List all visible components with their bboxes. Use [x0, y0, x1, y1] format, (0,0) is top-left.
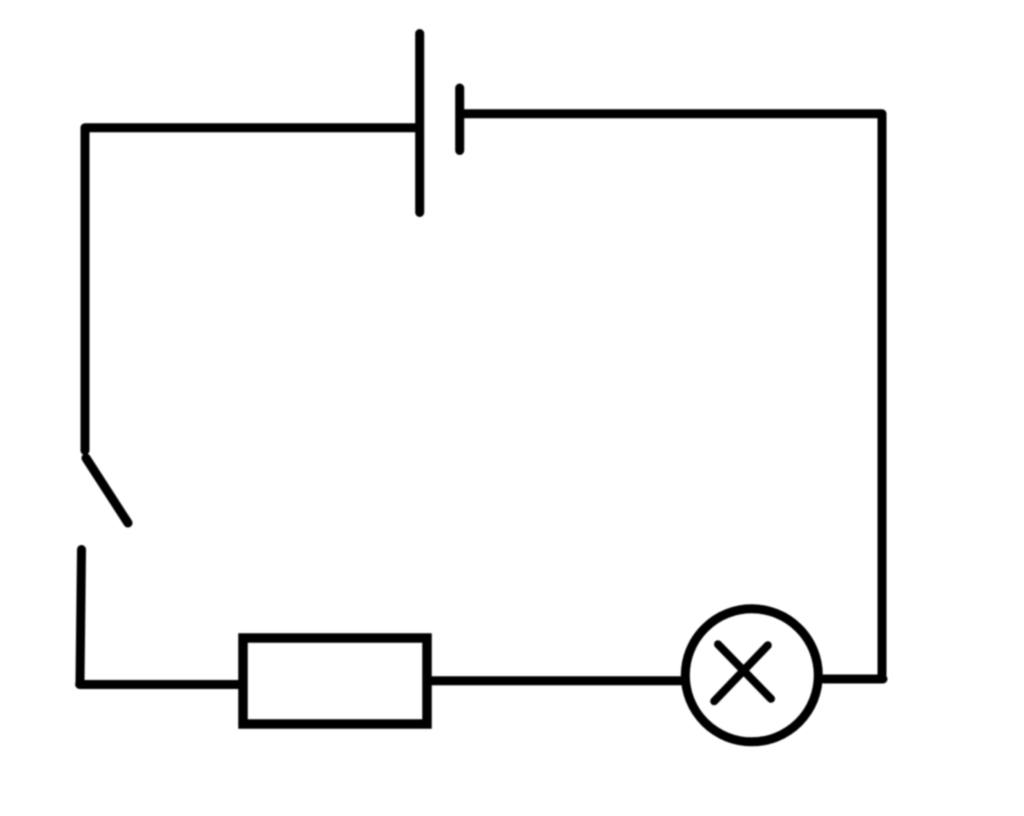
- wire: [80, 680, 240, 689]
- lamp L1: [685, 609, 818, 742]
- wire: [824, 675, 883, 684]
- wire: [85, 123, 417, 132]
- battery BT1: [420, 34, 460, 213]
- wire: [464, 109, 882, 118]
- resistor R1: [243, 638, 427, 724]
- wire: [878, 115, 887, 675]
- switch S1: [80, 458, 128, 682]
- wire: [81, 128, 90, 451]
- wire: [427, 676, 684, 685]
